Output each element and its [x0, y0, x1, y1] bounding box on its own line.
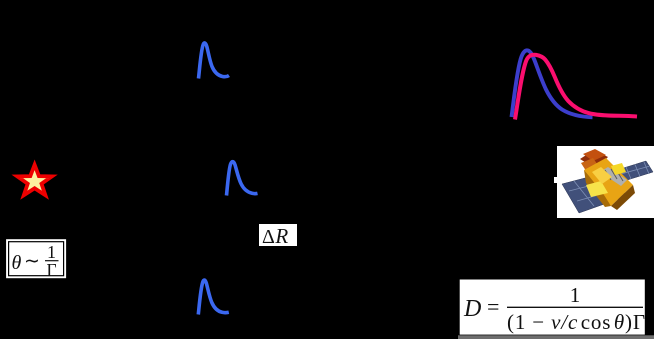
- theta ~ 1/Gamma formula box outer: [6, 239, 67, 279]
- left solar panel: [562, 172, 627, 213]
- telescope tube: [600, 167, 627, 186]
- fraction bar: [507, 306, 643, 308]
- theta box inner border: [9, 242, 64, 276]
- golden body: [584, 158, 633, 206]
- right solar panel: [617, 161, 653, 181]
- svg-text:1: 1: [570, 283, 581, 307]
- fraction bar: [45, 260, 59, 262]
- doppler formula box: [459, 279, 646, 336]
- body highlight: [592, 167, 612, 184]
- gold glow patches: [586, 181, 608, 197]
- satellite image white panel: [557, 146, 654, 218]
- svg-text:Γ: Γ: [46, 260, 56, 280]
- Delta R label box: [259, 224, 297, 246]
- observed pulse blue (comoving): [512, 50, 593, 117]
- svg-text:θ: θ: [12, 252, 22, 274]
- satellite panel notch: [554, 177, 558, 183]
- left panel grid: [569, 175, 623, 206]
- svg-text:=: =: [487, 294, 499, 319]
- pulse middle (blue FRED): [227, 162, 258, 196]
- svg-text:(1 − v/c cos θ)Γ: (1 − v/c cos θ)Γ: [507, 310, 646, 334]
- body dark under-face: [611, 185, 635, 210]
- star (source): [17, 165, 52, 195]
- svg-text:D: D: [463, 296, 481, 322]
- orange connector: [581, 158, 600, 174]
- satellite (Swift) drawing: [562, 149, 653, 213]
- BAT dark red slab: [580, 150, 608, 169]
- body left shade: [584, 170, 611, 207]
- pulse top (blue FRED): [199, 43, 230, 79]
- right panel grid: [619, 162, 650, 179]
- doppler box shadow strip: [458, 335, 654, 339]
- observed pulse pink (doppler shifted): [515, 55, 637, 120]
- pulse bottom (blue FRED): [198, 280, 229, 314]
- svg-text:ΔR: ΔR: [262, 224, 288, 248]
- svg-text:∼: ∼: [24, 251, 40, 272]
